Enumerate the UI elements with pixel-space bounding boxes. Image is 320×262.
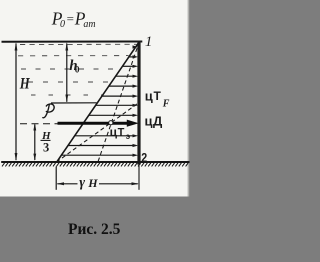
svg-text:H: H — [19, 75, 30, 93]
ground hatching — [2, 163, 188, 167]
force P script letter — [42, 104, 54, 118]
svg-text:ат: ат — [83, 19, 95, 30]
ground line — [1, 161, 189, 163]
white paper area — [0, 0, 189, 197]
svg-text:Т: Т — [118, 127, 125, 139]
H/3 dimension line — [34, 125, 36, 161]
label P0 = Pat — [51, 9, 96, 31]
svg-text:3: 3 — [43, 140, 49, 154]
centroid level tick (CT_F level) — [51, 102, 97, 104]
water dashes row 4 — [28, 81, 111, 83]
arrow row y136 — [75, 134, 138, 137]
gray background — [0, 0, 193, 262]
dashed median M2 — [57, 103, 140, 163]
wall extension below ground (dimension extension) — [138, 165, 140, 190]
arrow row y76 — [116, 75, 138, 78]
gamma-H dimension left extension — [55, 167, 57, 190]
svg-text:0: 0 — [75, 65, 80, 75]
resultant force thick arrow — [58, 122, 129, 125]
svg-text:Д: Д — [153, 114, 163, 129]
CD level tick — [20, 123, 58, 125]
h0 dimension line — [66, 44, 68, 102]
water dashes row 3 — [21, 68, 120, 70]
arrow row y155 — [62, 154, 138, 157]
svg-text:ц: ц — [145, 114, 153, 129]
svg-text:0: 0 — [60, 19, 65, 30]
svg-text:H: H — [87, 176, 98, 190]
svg-text:=: = — [67, 11, 74, 26]
svg-text:F: F — [162, 99, 170, 110]
water dashes row 2 — [18, 55, 129, 57]
arrow row y96 — [102, 95, 138, 98]
dashed median M1 — [98, 42, 139, 162]
arrow row y116 — [89, 114, 138, 117]
arrow row y86 — [109, 85, 138, 88]
H dimension line — [15, 44, 17, 161]
svg-text:Рис. 2.5: Рис. 2.5 — [68, 221, 121, 238]
arrow row y47 — [133, 45, 139, 48]
pressure diagram hypotenuse — [56, 41, 139, 162]
arrow row y145 — [69, 144, 139, 147]
water dashes row 5 — [31, 94, 102, 96]
label CD — [145, 114, 164, 129]
gamma-H dimension line — [57, 183, 77, 185]
svg-text:γ: γ — [79, 176, 85, 191]
svg-text:э: э — [126, 132, 131, 141]
svg-text:ц: ц — [110, 125, 118, 139]
arrow row y106 — [96, 104, 138, 107]
svg-text:1: 1 — [145, 34, 153, 50]
free surface line — [2, 41, 143, 43]
centroid circle of pressure diagram — [109, 121, 113, 125]
water dashes row 1 — [20, 43, 137, 45]
label CT_F — [145, 89, 170, 110]
svg-text:Т: Т — [154, 89, 162, 103]
label CT_e — [110, 125, 131, 141]
arrow row y57 — [129, 55, 138, 58]
arrow row y66 — [123, 65, 139, 68]
svg-text:ц: ц — [145, 89, 153, 104]
pressure arrows — [62, 45, 138, 156]
wall (vertical plate 1-2) — [137, 41, 140, 165]
